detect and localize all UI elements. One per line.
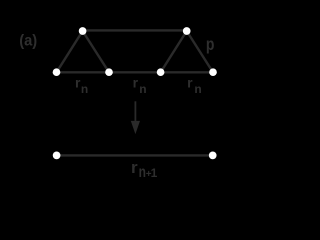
arrow down stem	[134, 101, 136, 125]
wire left triangle left edge	[57, 31, 83, 72]
wire right triangle left edge	[161, 31, 187, 72]
svg-text:(a): (a)	[19, 32, 37, 50]
wire right triangle right edge	[187, 31, 213, 72]
svg-text:p: p	[206, 36, 215, 55]
svg-text:1: 1	[151, 166, 158, 180]
node base 2	[105, 68, 113, 76]
wire left triangle right edge	[83, 31, 109, 72]
node apex right	[183, 27, 191, 35]
node apex left	[79, 27, 87, 35]
svg-text:r: r	[131, 158, 138, 177]
node base 3	[157, 68, 165, 76]
node base 1	[53, 68, 61, 76]
node bottom right	[209, 152, 217, 160]
arrow head	[131, 121, 140, 134]
node bottom left	[53, 152, 61, 160]
wire top horizontal between apexes	[83, 29, 187, 31]
node base 4	[209, 68, 217, 76]
wire base horizontal	[57, 71, 214, 73]
wire bottom horizontal	[57, 154, 213, 156]
